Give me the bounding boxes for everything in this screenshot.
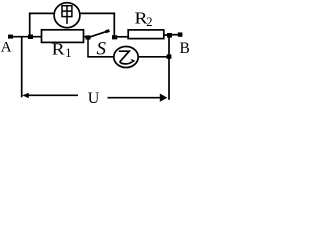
svg-text:S: S (97, 39, 107, 60)
svg-text:R: R (52, 40, 65, 59)
svg-text:1: 1 (65, 46, 71, 60)
svg-text:A: A (1, 40, 12, 56)
svg-text:U: U (88, 90, 100, 105)
svg-text:B: B (180, 40, 190, 57)
svg-text:2: 2 (146, 15, 152, 29)
